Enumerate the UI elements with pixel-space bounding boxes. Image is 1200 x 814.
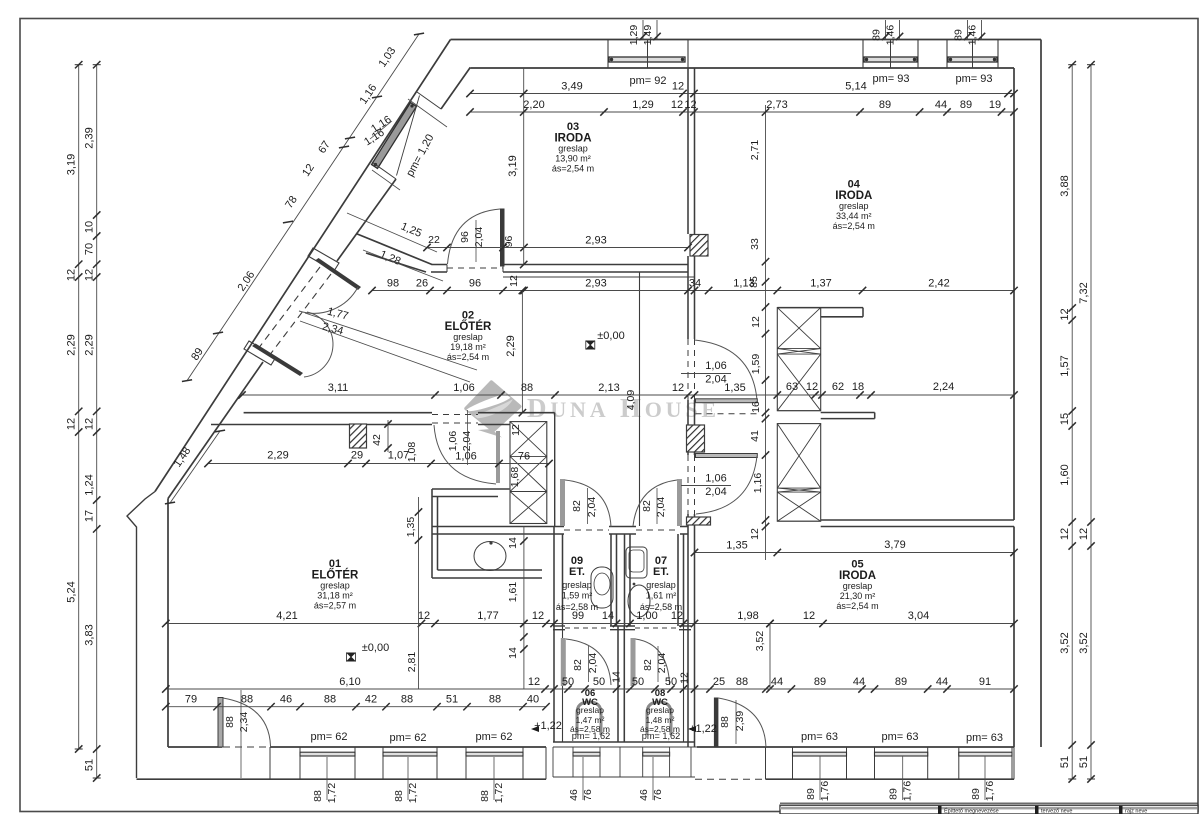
diagonal chain D1 [187,34,419,381]
svg-text:51: 51 [1078,756,1090,768]
dim row y112 [470,111,1014,113]
svg-text:88: 88 [521,382,533,394]
svg-text:88: 88 [224,716,236,728]
svg-text:pm= 93: pm= 93 [873,73,910,85]
svg-text:26: 26 [416,278,428,290]
bottom wall room05 with windows pm=63 [697,746,1014,748]
hatched pier corridor wall [687,425,705,452]
svg-text:3,88: 3,88 [1059,175,1071,196]
svg-text:82: 82 [642,659,654,671]
dim row y689 [166,688,1014,690]
svg-text:1,76: 1,76 [984,781,996,802]
svg-text:82: 82 [571,500,583,512]
svg-text:2,93: 2,93 [585,278,606,290]
svg-text:1,57: 1,57 [1059,355,1071,376]
svg-text:89: 89 [814,676,826,688]
top mini chains above windows [642,20,644,40]
window pm=62 #3 [466,752,523,756]
svg-text:44: 44 [935,99,947,111]
jamb block lower door [244,341,276,365]
bathroom block walls [554,413,556,527]
wall between rooms 03 and 04 [687,68,689,234]
svg-text:12: 12 [672,382,684,394]
hatched pier [350,424,367,448]
door arc lower (diagonal double door) [304,312,333,377]
svg-text:50: 50 [593,676,605,688]
svg-text:50: 50 [665,676,677,688]
door 09: leaf + arc [560,479,565,526]
wall: left interior edge [167,499,169,748]
svg-text:1,37: 1,37 [810,278,831,290]
svg-text:pm= 92: pm= 92 [630,75,667,87]
svg-text:63: 63 [786,381,798,393]
svg-text:14: 14 [611,671,623,683]
svg-text:91: 91 [979,676,991,688]
svg-text:19: 19 [989,99,1001,111]
svg-text:88: 88 [479,790,491,802]
arch fixture WC08 [647,702,671,735]
svg-text:19,18 m²: 19,18 m² [450,342,486,352]
svg-text:2,39: 2,39 [84,127,96,148]
svg-text:pm= 62: pm= 62 [476,731,513,743]
hall level marker [586,341,595,350]
door WC06: leaf + arc [561,638,566,686]
door hall-room01: arc + leaf [496,431,500,483]
svg-text:pm= 62: pm= 62 [390,732,427,744]
dim row y706.7 (left) [166,706,546,708]
svg-text:1,29: 1,29 [628,25,640,46]
wall: bathroom bottom band [553,741,695,743]
svg-text:1,29: 1,29 [632,99,653,111]
svg-text:51: 51 [84,759,96,771]
svg-text:05: 05 [851,559,863,571]
left vertical chain L1 x78.7 [78,65,80,749]
shaft lower pair [777,424,820,522]
svg-text:46: 46 [280,694,292,706]
svg-text:2,29: 2,29 [84,334,96,355]
svg-text:40: 40 [527,694,539,706]
svg-text:76: 76 [652,789,664,801]
door to room03: threshold dashes [447,267,503,269]
svg-text:2,04: 2,04 [705,486,726,498]
svg-text:1,59 m²: 1,59 m² [562,591,593,601]
svg-text:ás=2,54 m: ás=2,54 m [552,164,594,174]
svg-text:ET.: ET. [569,566,585,578]
wall between hall and room01 (y412-425) [244,412,432,414]
door corridor-room05 upper: arc [696,456,757,514]
wall: bottom inner edge segments (room01) [168,746,222,748]
svg-text:12: 12 [528,676,540,688]
svg-text:88: 88 [401,694,413,706]
window pm=63 #2 [875,752,928,756]
svg-text:44: 44 [936,676,948,688]
diagonal chamfer wall to room03 wall [356,234,432,265]
arch fixture WC06 [577,702,601,735]
svg-text:1,76: 1,76 [819,781,831,802]
wall: diagonal exterior outer edge [155,40,451,492]
svg-text:88: 88 [324,694,336,706]
window pm=93 left [864,57,917,62]
svg-text:41: 41 [749,430,761,442]
svg-text:1,06: 1,06 [455,451,476,463]
svg-text:89: 89 [879,99,891,111]
svg-text:pm= 63: pm= 63 [801,731,838,743]
svg-text:2,04: 2,04 [461,431,473,452]
window pm=1,20 in diagonal wall [372,103,417,169]
svg-text:44: 44 [853,676,865,688]
bathroom top band y526-534 segments [546,526,564,528]
WC pan room07 [628,585,650,617]
svg-text:greslap: greslap [646,705,674,715]
svg-text:1,49: 1,49 [642,25,654,46]
svg-text:98: 98 [387,278,399,290]
svg-text:82: 82 [572,659,584,671]
svg-text:1,35: 1,35 [405,517,417,538]
svg-text:2,04: 2,04 [705,374,726,386]
svg-text:46: 46 [568,789,580,801]
dim row y290.5 [372,290,1014,292]
svg-text:79: 79 [185,694,197,706]
svg-text:1,46: 1,46 [885,25,897,46]
door size leader 1,77 / 2,34 [305,313,477,370]
wall between room03 and hall (y265-272) [432,264,448,266]
svg-text:33: 33 [749,238,761,250]
svg-text:96: 96 [469,278,481,290]
title block bottom right [780,802,1198,804]
jamb block upper door [308,248,339,271]
svg-text:96: 96 [459,231,471,243]
dim row y247.5 (hall top) [427,247,688,249]
svg-text:2,29: 2,29 [505,335,517,356]
mid stub wall [821,412,875,414]
svg-text:ás=2,54 m: ás=2,54 m [836,601,878,611]
svg-text:02: 02 [462,310,474,322]
svg-text:70: 70 [84,243,96,255]
svg-text:62: 62 [832,381,844,393]
svg-text:±0,00: ±0,00 [362,642,389,654]
watermark Duna House logo [464,382,720,437]
svg-text:12: 12 [749,528,761,540]
svg-text:44: 44 [771,676,783,688]
svg-text:greslap: greslap [576,705,604,715]
svg-text:01: 01 [329,558,341,570]
svg-text:1,16: 1,16 [752,473,764,494]
svg-text:89: 89 [888,788,900,800]
svg-text:1,35: 1,35 [726,540,747,552]
svg-text:88: 88 [489,694,501,706]
svg-text:greslap: greslap [646,580,676,590]
door leaf upper (diagonal double door) [315,258,361,290]
wall: top exterior outer edge [451,39,1042,41]
svg-text:3,79: 3,79 [884,539,905,551]
svg-text:1,24: 1,24 [84,474,96,495]
corridor wall x639 (thin) [639,272,641,526]
svg-text:pm= 63: pm= 63 [882,731,919,743]
door room05 bottom: leaf + arc [714,698,719,748]
door WC08: leaf + arc [631,638,636,686]
svg-text:42: 42 [365,694,377,706]
dim row 1,35 / 3,79 [695,552,1015,554]
hatched pier room03/04 [690,235,708,257]
svg-text:96: 96 [503,236,515,248]
door to room03: arc [448,209,501,264]
svg-text:51: 51 [1059,756,1071,768]
right vertical chain R2 x1091 [1090,65,1092,779]
corridor east wall segment [687,400,689,455]
svg-text:1,76: 1,76 [902,781,914,802]
svg-text:rajz neve: rajz neve [1125,809,1147,814]
svg-text:82: 82 [641,500,653,512]
svg-text:1,68: 1,68 [509,467,521,488]
door corridor-room04 arc [695,340,758,400]
hatched pier at hall south [687,517,711,525]
svg-text:5,14: 5,14 [845,81,866,93]
svg-text:ás=2,58 m: ás=2,58 m [570,724,610,734]
svg-text:29: 29 [351,450,363,462]
svg-text:pm= 93: pm= 93 [956,73,993,85]
svg-text:12: 12 [418,610,430,622]
svg-text:89: 89 [953,29,965,41]
svg-text:89: 89 [805,788,817,800]
svg-text:4,09: 4,09 [625,390,637,411]
window pm=93 right [948,57,997,62]
vertical dim x766 (right of corridor) [765,105,767,560]
svg-text:12: 12 [672,81,684,93]
svg-text:4,21: 4,21 [276,610,297,622]
svg-text:34: 34 [689,278,701,290]
wall: right exterior [1040,40,1042,748]
wall: diagonal interior edge (mid segment) [337,179,396,261]
svg-text:3,49: 3,49 [561,81,582,93]
svg-text:2,13: 2,13 [598,382,619,394]
svg-text:31,18 m²: 31,18 m² [317,591,353,601]
dim row y623.5 [166,623,1014,625]
svg-text:±0,00: ±0,00 [597,330,624,342]
svg-text:ET.: ET. [653,566,669,578]
svg-text:12: 12 [66,418,78,430]
svg-text:2,34: 2,34 [238,712,250,733]
diagonal wall dashed opening (double door) [258,267,320,349]
short diag chain 1,48 [170,431,220,503]
svg-text:89: 89 [960,99,972,111]
dashed exterior opening below corridor [695,746,765,748]
left vertical chain L2 x96.7 [96,65,98,778]
room05 north wall [821,519,1014,521]
svg-text:85: 85 [748,276,760,288]
svg-text:tervező neve: tervező neve [1041,809,1073,814]
door leaf lower (diagonal double door) [252,344,303,377]
dim row y93.5 [470,93,1014,95]
svg-text:2,29: 2,29 [66,334,78,355]
svg-text:1,35: 1,35 [724,382,745,394]
svg-text:ás=2,58 m: ás=2,58 m [640,724,680,734]
svg-text:DUNA HOUSE: DUNA HOUSE [527,393,720,423]
svg-text:3,83: 3,83 [84,624,96,645]
svg-text:14: 14 [507,537,519,549]
svg-text:12: 12 [508,275,520,287]
svg-text:88: 88 [241,694,253,706]
window pm=62 #2 [383,752,437,756]
shaft upper pair [777,308,820,411]
svg-text:ás=2,58 m: ás=2,58 m [640,602,682,612]
svg-text:pm= 62: pm= 62 [311,731,348,743]
svg-text:22: 22 [428,234,440,246]
svg-text:2,24: 2,24 [933,381,954,393]
svg-text:88: 88 [393,790,405,802]
svg-text:ás=2,57 m: ás=2,57 m [314,601,356,611]
svg-text:1,06: 1,06 [447,431,459,452]
svg-text:50: 50 [632,676,644,688]
door arc upper (diagonal double door) [299,287,358,313]
svg-text:12: 12 [679,672,691,684]
svg-text:2,71: 2,71 [749,140,761,161]
svg-text:greslap: greslap [562,580,592,590]
window pm=63 #3 [959,752,1012,756]
svg-text:1,59: 1,59 [750,354,762,375]
svg-text:6,10: 6,10 [339,676,360,688]
svg-text:89: 89 [871,29,883,41]
svg-text:3,19: 3,19 [507,155,519,176]
wall: top exterior inner edge [471,67,1015,69]
svg-text:16: 16 [750,401,762,413]
svg-text:ás=2,54 m: ás=2,54 m [833,221,875,231]
door in bottom wall of room01 [218,698,223,748]
door corridor-room04 (dashed opening) [687,339,689,400]
svg-text:18: 18 [852,381,864,393]
svg-text:1,72: 1,72 [326,783,338,804]
svg-text:2,04: 2,04 [473,227,485,248]
bottom rotated window dims [326,757,328,800]
svg-text:greslap: greslap [839,201,869,211]
sink room07 [626,547,647,578]
pier 42 dim [387,420,389,452]
svg-text:12: 12 [84,269,96,281]
svg-text:21,30 m²: 21,30 m² [840,591,876,601]
svg-text:3,04: 3,04 [908,610,929,622]
svg-text:76: 76 [518,451,530,463]
corridor east wall x688-695 [687,272,689,339]
svg-text:46: 46 [638,789,650,801]
svg-text:76: 76 [582,789,594,801]
svg-text:12: 12 [1078,528,1090,540]
svg-text:12: 12 [803,610,815,622]
door corridor-room05 upper: leaf [696,454,758,458]
corridor/room04 wall below pier [687,256,689,272]
svg-text:1,61 m²: 1,61 m² [646,591,677,601]
svg-text:3,52: 3,52 [1078,632,1090,653]
svg-text:3,52: 3,52 [1059,632,1071,653]
svg-text:3,52: 3,52 [754,631,766,652]
svg-text:14: 14 [602,610,614,622]
svg-text:2,29: 2,29 [267,450,288,462]
svg-text:25: 25 [713,676,725,688]
svg-text:03: 03 [567,121,579,133]
svg-text:89: 89 [895,676,907,688]
svg-text:51: 51 [446,694,458,706]
svg-text:1,06: 1,06 [705,360,726,372]
svg-text:2,73: 2,73 [766,99,787,111]
svg-text:2,81: 2,81 [406,652,418,673]
svg-text:1,77: 1,77 [477,610,498,622]
svg-text:greslap: greslap [453,332,483,342]
svg-text:5,24: 5,24 [66,581,78,602]
svg-text:ás=2,54 m: ás=2,54 m [447,352,489,362]
svg-text:1,98: 1,98 [737,610,758,622]
svg-text:89: 89 [970,788,982,800]
dim row y395 (hall mid) [242,394,1014,396]
svg-text:42: 42 [371,434,383,446]
room01 level marker [347,653,356,662]
shaft with X bracing (hall) [510,422,547,524]
right vertical chain R1 x1072 [1071,65,1073,779]
wall: diagonal interior edge (lower segment) [168,362,263,499]
door to room03: leaf [500,209,505,267]
corridor east wall lower [687,514,689,747]
WC top band y626-630 [553,625,565,627]
svg-text:10: 10 [84,221,96,233]
svg-text:12: 12 [66,269,78,281]
svg-text:50: 50 [562,676,574,688]
window WC right [643,752,670,756]
svg-text:33,44 m²: 33,44 m² [836,211,872,221]
vertical dim x523.7 (3,19 / 2,29) [523,68,525,265]
dim row y463.5 [208,463,549,465]
svg-text:greslap: greslap [558,144,588,154]
svg-text:88: 88 [719,716,731,728]
svg-text:17: 17 [84,510,96,522]
svg-text:1,60: 1,60 [1059,464,1071,485]
washbasin ellipse [474,542,506,571]
svg-text:ás=2,58 m: ás=2,58 m [556,602,598,612]
svg-text:12: 12 [1059,528,1071,540]
svg-text:1,72: 1,72 [407,783,419,804]
svg-text:12: 12 [750,316,762,328]
svg-text:13,90 m²: 13,90 m² [555,154,591,164]
U-counter in room01 [432,488,509,490]
window pm=92 top [609,57,685,62]
svg-text:greslap: greslap [843,581,873,591]
svg-text:1,08: 1,08 [406,442,418,463]
svg-text:88: 88 [312,790,324,802]
svg-text:14: 14 [507,647,519,659]
WC pan room09 [591,567,613,608]
svg-text:1,06: 1,06 [705,473,726,485]
svg-text:04: 04 [848,179,861,191]
svg-text:12: 12 [1059,308,1071,320]
svg-text:2,93: 2,93 [585,235,606,247]
svg-text:12: 12 [84,418,96,430]
svg-text:pm= 63: pm= 63 [966,732,1003,744]
svg-text:12: 12 [532,610,544,622]
door corridor-room04 leaf [696,399,758,403]
svg-text:15: 15 [1059,413,1071,425]
svg-text:12: 12 [671,99,683,111]
svg-text:1,61: 1,61 [507,582,519,603]
svg-text:12: 12 [806,381,818,393]
window jambs [417,92,441,109]
svg-text:3,11: 3,11 [328,382,349,394]
window pm=63 #1 [793,752,847,756]
window WC left [573,752,600,756]
svg-text:greslap: greslap [320,581,350,591]
svg-text:7,32: 7,32 [1078,282,1090,303]
window pm=62 #1 [300,752,355,756]
svg-text:88: 88 [736,676,748,688]
svg-text:1,06: 1,06 [453,382,474,394]
svg-text:2,42: 2,42 [928,278,949,290]
svg-text:1,72: 1,72 [493,783,505,804]
svg-text:Építtető megnevezése: Építtető megnevezése [944,808,999,814]
